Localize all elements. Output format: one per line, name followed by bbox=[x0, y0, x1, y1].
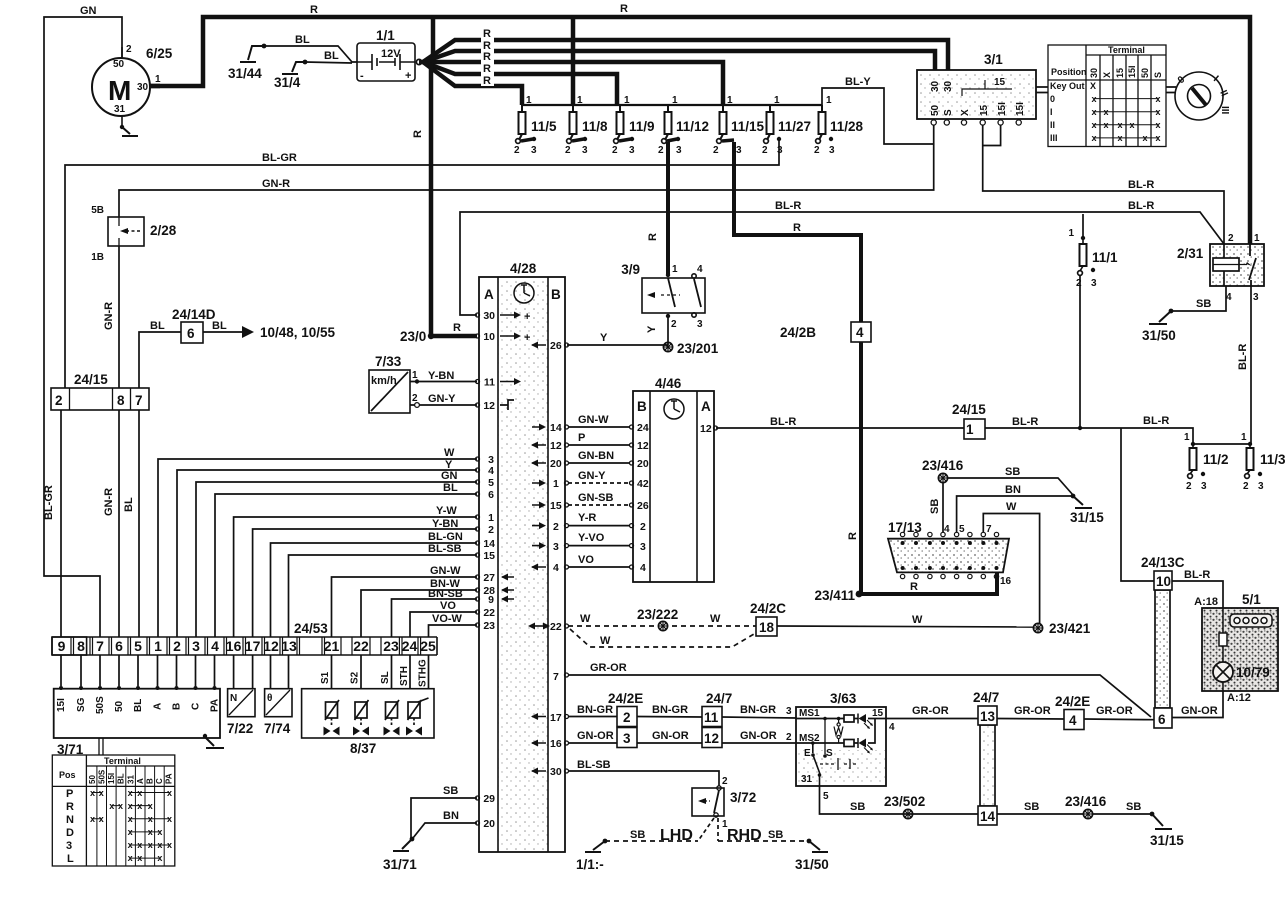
svg-text:26: 26 bbox=[550, 340, 562, 352]
svg-text:21: 21 bbox=[324, 638, 340, 654]
svg-text:15: 15 bbox=[1115, 68, 1125, 78]
svg-text:31/50: 31/50 bbox=[1142, 328, 1176, 343]
svg-text:BL-GR: BL-GR bbox=[262, 152, 297, 164]
svg-text:23: 23 bbox=[383, 638, 399, 654]
svg-text:11/12: 11/12 bbox=[676, 119, 709, 134]
wire W solid from 24/2C to node 23/421 bbox=[777, 614, 1091, 636]
svg-text:15: 15 bbox=[994, 77, 1006, 88]
svg-text:7/33: 7/33 bbox=[375, 354, 402, 369]
svg-text:BN-GR: BN-GR bbox=[652, 704, 688, 716]
svg-text:1: 1 bbox=[1184, 432, 1190, 443]
svg-text:S: S bbox=[826, 748, 833, 759]
svg-text:5/1: 5/1 bbox=[1242, 592, 1261, 607]
svg-text:13: 13 bbox=[281, 638, 297, 654]
connector 24/15 single box 1 bbox=[952, 402, 986, 439]
component 2/28 bbox=[91, 205, 177, 263]
svg-text:10: 10 bbox=[483, 331, 495, 343]
svg-text:3: 3 bbox=[629, 145, 635, 156]
svg-text:1: 1 bbox=[577, 95, 583, 106]
svg-text:27: 27 bbox=[483, 572, 495, 584]
connector 17/13 diagnostic bbox=[888, 520, 1012, 587]
svg-text:2/28: 2/28 bbox=[150, 223, 177, 238]
svg-text:SB: SB bbox=[443, 785, 458, 797]
svg-text:16: 16 bbox=[1000, 576, 1012, 587]
svg-text:SG: SG bbox=[76, 697, 87, 712]
svg-text:11/28: 11/28 bbox=[830, 119, 864, 134]
svg-text:BL-R: BL-R bbox=[1143, 415, 1169, 427]
svg-text:2: 2 bbox=[565, 145, 571, 156]
RHD dashed SB to ground 31/50 bbox=[718, 840, 809, 842]
interlock switch E to 31/5 bbox=[811, 743, 821, 786]
ground below motor 31 bbox=[120, 125, 124, 129]
connector strip 24/53 bbox=[52, 621, 437, 655]
svg-text:SB: SB bbox=[1196, 298, 1211, 310]
svg-text:24/53: 24/53 bbox=[294, 621, 328, 636]
svg-text:10/79: 10/79 bbox=[1236, 665, 1270, 680]
svg-text:15I: 15I bbox=[1015, 102, 1026, 116]
svg-text:A:12: A:12 bbox=[1227, 692, 1251, 704]
svg-text:x: x bbox=[167, 814, 172, 824]
svg-text:3: 3 bbox=[829, 145, 835, 156]
svg-text:STH: STH bbox=[399, 666, 410, 686]
wire Y-VO bbox=[568, 545, 630, 547]
svg-text:C: C bbox=[191, 703, 202, 710]
connector 4/28 main box bbox=[479, 261, 565, 852]
wire SB from box 14 through 23/416 to ground 31/15 bbox=[997, 794, 1184, 848]
svg-text:5: 5 bbox=[134, 638, 142, 654]
svg-text:GR-OR: GR-OR bbox=[590, 662, 627, 674]
svg-text:S1: S1 bbox=[320, 671, 331, 684]
svg-text:R: R bbox=[483, 28, 491, 40]
svg-text:2: 2 bbox=[1076, 278, 1082, 289]
svg-text:GN-OR: GN-OR bbox=[577, 730, 614, 742]
svg-text:x: x bbox=[148, 814, 153, 824]
svg-text:50: 50 bbox=[1140, 68, 1150, 78]
svg-text:BL-R: BL-R bbox=[1012, 416, 1038, 428]
4/28 B-side pins bbox=[528, 340, 569, 778]
battery plus terminal circle bbox=[416, 59, 421, 64]
cascade wires from 4/28 A pins to 24/53 strip bbox=[158, 447, 477, 637]
svg-text:R: R bbox=[453, 322, 461, 334]
svg-text:24/2E: 24/2E bbox=[608, 691, 643, 706]
fuse 11/5 bbox=[514, 95, 557, 156]
wire GN-Y dashed bbox=[568, 482, 630, 484]
svg-text:A: A bbox=[484, 287, 494, 302]
svg-text:3/9: 3/9 bbox=[621, 262, 640, 277]
svg-text:4: 4 bbox=[640, 562, 646, 574]
svg-text:x: x bbox=[157, 827, 162, 837]
wire BL-R net from 4/46 A12 through 24/15-1 to 11/1, 11/2, 11/3 and 24/13C bbox=[716, 415, 1252, 581]
svg-text:1/1: 1/1 bbox=[376, 28, 395, 43]
svg-text:GN-SB: GN-SB bbox=[578, 492, 614, 504]
svg-text:3/63: 3/63 bbox=[830, 691, 857, 706]
svg-text:x: x bbox=[167, 788, 172, 798]
svg-text:W: W bbox=[1006, 501, 1017, 513]
svg-text:x: x bbox=[90, 788, 95, 798]
connector 24/2E boxes 2 and 3 bbox=[608, 691, 643, 748]
svg-text:R: R bbox=[412, 130, 424, 138]
svg-text:15I: 15I bbox=[1127, 65, 1137, 78]
svg-text:16: 16 bbox=[226, 638, 242, 654]
svg-text:GN-R: GN-R bbox=[262, 178, 290, 190]
svg-text:S: S bbox=[1153, 72, 1163, 78]
dashed LHD/RHD select wires from 3/72 pin 1 bbox=[576, 818, 829, 872]
svg-text:17: 17 bbox=[550, 712, 562, 724]
svg-text:1/1:-: 1/1:- bbox=[576, 857, 604, 872]
svg-text:2/31: 2/31 bbox=[1177, 246, 1204, 261]
svg-text:E: E bbox=[804, 748, 811, 759]
svg-text:4: 4 bbox=[889, 722, 895, 733]
svg-text:24/14D: 24/14D bbox=[172, 307, 216, 322]
svg-text:+: + bbox=[524, 332, 530, 344]
wires 4/28 B to 4/46 B bbox=[568, 414, 630, 567]
wire BL-SB bbox=[289, 555, 478, 637]
svg-text:PA: PA bbox=[165, 773, 174, 784]
wire GN-OR row: 4/28 B16 to 3/63 pin 2 bbox=[568, 730, 796, 743]
svg-text:A:18: A:18 bbox=[1194, 596, 1218, 608]
svg-text:14: 14 bbox=[550, 422, 562, 434]
MS2 line with resistor and LED bbox=[796, 719, 875, 754]
svg-text:BL-SB: BL-SB bbox=[577, 759, 611, 771]
connector 24/13C column boxes 10 and 6 bbox=[1141, 555, 1185, 728]
wire BL-GN bbox=[271, 543, 478, 637]
svg-text:7: 7 bbox=[96, 638, 104, 654]
wire Y-BN bbox=[253, 529, 477, 637]
svg-text:23/421: 23/421 bbox=[1049, 621, 1091, 636]
solenoid SL bbox=[384, 700, 400, 736]
svg-text:26: 26 bbox=[637, 500, 649, 512]
svg-text:3: 3 bbox=[192, 638, 200, 654]
svg-text:RHD: RHD bbox=[727, 827, 762, 844]
svg-text:22: 22 bbox=[483, 607, 495, 619]
svg-text:BL: BL bbox=[117, 773, 126, 784]
wire Y from 3/9 pin2 to node 23/201 and to 4/28 B26 bbox=[567, 318, 668, 345]
svg-text:23/416: 23/416 bbox=[922, 458, 964, 473]
svg-text:5: 5 bbox=[959, 524, 965, 535]
wire BN-W bbox=[361, 590, 477, 637]
svg-text:1: 1 bbox=[412, 370, 418, 381]
svg-text:1: 1 bbox=[526, 95, 532, 106]
ground 31/4 bbox=[282, 62, 305, 74]
svg-text:Position: Position bbox=[1051, 67, 1087, 77]
svg-text:N: N bbox=[230, 693, 237, 704]
svg-text:22: 22 bbox=[353, 638, 369, 654]
svg-text:R: R bbox=[66, 801, 74, 813]
svg-text:6: 6 bbox=[1158, 712, 1166, 727]
svg-text:BL: BL bbox=[443, 482, 458, 494]
svg-text:R: R bbox=[793, 222, 801, 234]
svg-text:30: 30 bbox=[483, 310, 495, 322]
svg-text:BN: BN bbox=[443, 810, 459, 822]
svg-text:BL-R: BL-R bbox=[770, 416, 796, 428]
svg-text:3: 3 bbox=[623, 731, 631, 746]
svg-text:3: 3 bbox=[1091, 278, 1097, 289]
solenoid STH/STHG bbox=[406, 698, 429, 736]
fuse 11/27 bbox=[762, 95, 811, 156]
MS1 line with resistor and LED bbox=[796, 714, 886, 730]
svg-text:PA: PA bbox=[210, 699, 221, 712]
fuse 11/28 bbox=[814, 95, 864, 156]
svg-text:SB: SB bbox=[929, 499, 941, 514]
svg-text:7: 7 bbox=[986, 524, 992, 535]
component 3/71 gear selector bbox=[54, 655, 224, 757]
connector symbol inside 5/1 bbox=[1230, 614, 1272, 627]
solenoid block 8/37 bbox=[302, 655, 434, 756]
svg-text:VO-W: VO-W bbox=[432, 613, 463, 625]
svg-text:X: X bbox=[960, 109, 971, 116]
4/28 A-side pins bbox=[476, 310, 531, 830]
svg-text:BL-R: BL-R bbox=[1128, 200, 1154, 212]
svg-text:A: A bbox=[701, 399, 711, 414]
svg-text:24/2B: 24/2B bbox=[780, 325, 816, 340]
svg-text:-: - bbox=[360, 70, 364, 82]
connector 24/2C box 18 bbox=[750, 601, 786, 636]
svg-text:x: x bbox=[128, 788, 133, 798]
connector 24/7 column boxes 13 and 14 bbox=[973, 690, 999, 825]
sensor 7/33 km/h bbox=[369, 354, 477, 413]
svg-text:W: W bbox=[710, 613, 721, 625]
wire BL-GR from 11/27 pin3 left across to left side and down bbox=[65, 140, 779, 388]
key cylinder symbol bbox=[1175, 72, 1230, 120]
svg-text:D: D bbox=[66, 827, 74, 839]
wire BL-R from box 10 to 5/1 A:18 bbox=[1172, 569, 1223, 608]
svg-text:31/71: 31/71 bbox=[383, 857, 417, 872]
table row connect lines and X marks bbox=[1094, 99, 1158, 138]
svg-text:1B: 1B bbox=[91, 252, 104, 263]
connector 24/14D box 6 with BL wires bbox=[139, 307, 336, 388]
wire GN-SB dashed bbox=[568, 504, 630, 506]
svg-text:23/0: 23/0 bbox=[400, 329, 426, 344]
svg-text:STHG: STHG bbox=[418, 659, 429, 687]
svg-text:x: x bbox=[148, 801, 153, 811]
svg-text:x: x bbox=[128, 840, 133, 850]
svg-text:BL: BL bbox=[150, 320, 165, 332]
svg-text:3: 3 bbox=[697, 319, 703, 330]
svg-text:4: 4 bbox=[856, 325, 864, 340]
svg-text:23: 23 bbox=[483, 620, 495, 632]
svg-text:GR-OR: GR-OR bbox=[912, 705, 949, 717]
svg-text:Y-BN: Y-BN bbox=[432, 518, 458, 530]
svg-text:5B: 5B bbox=[91, 205, 104, 216]
svg-text:3: 3 bbox=[777, 145, 783, 156]
connector 4/46 bbox=[630, 376, 718, 582]
svg-text:4: 4 bbox=[488, 465, 494, 477]
svg-text:BL-GR: BL-GR bbox=[43, 485, 55, 520]
svg-text:1: 1 bbox=[488, 512, 494, 524]
wire P bbox=[568, 444, 630, 446]
svg-text:2: 2 bbox=[713, 145, 719, 156]
svg-text:31: 31 bbox=[126, 775, 135, 784]
sensor 7/22 bbox=[227, 655, 255, 736]
svg-text:BL-Y: BL-Y bbox=[845, 76, 871, 88]
svg-text:L: L bbox=[67, 853, 74, 865]
svg-text:LHD: LHD bbox=[660, 827, 693, 844]
svg-text:BN-GR: BN-GR bbox=[740, 704, 776, 716]
svg-text:4: 4 bbox=[211, 638, 219, 654]
svg-text:20: 20 bbox=[637, 458, 649, 470]
wire Y-W bbox=[234, 517, 477, 637]
motor 6/25 bbox=[92, 47, 160, 127]
wire BL-R from 3/1 pin15 to relay 2/31 pin 2 bbox=[983, 125, 1224, 244]
svg-text:3: 3 bbox=[1258, 481, 1264, 492]
svg-text:30: 30 bbox=[943, 80, 954, 92]
svg-text:BL-R: BL-R bbox=[775, 200, 801, 212]
svg-text:15: 15 bbox=[872, 708, 884, 719]
fuse 11/12 bbox=[658, 95, 709, 156]
R labels on fan bbox=[481, 27, 494, 87]
wire GN from motor pin 2 around top-left down to 24/53 cell 7 bbox=[44, 17, 122, 637]
svg-text:SB: SB bbox=[1126, 801, 1141, 813]
fuse 11/9 bbox=[612, 95, 655, 156]
svg-text:42: 42 bbox=[637, 478, 649, 490]
svg-text:P: P bbox=[578, 432, 585, 444]
svg-text:x: x bbox=[1155, 107, 1160, 117]
svg-text:1: 1 bbox=[154, 638, 162, 654]
svg-text:12: 12 bbox=[550, 440, 562, 452]
svg-text:III: III bbox=[1050, 133, 1058, 143]
svg-text:8/37: 8/37 bbox=[350, 741, 376, 756]
connector 24/2E box 4 bbox=[1055, 694, 1090, 730]
svg-text:2: 2 bbox=[488, 524, 494, 536]
svg-text:11/5: 11/5 bbox=[531, 119, 557, 134]
svg-text:31/4: 31/4 bbox=[274, 75, 301, 90]
svg-text:9: 9 bbox=[58, 638, 66, 654]
wire BL-R horizontal to 4/28 pin30 (from relay pin2 diagonal) bbox=[460, 200, 1224, 315]
wire R drop from top bus to battery plus fan point bbox=[431, 17, 436, 58]
svg-text:23/201: 23/201 bbox=[677, 341, 719, 356]
svg-text:x: x bbox=[128, 853, 133, 863]
node 23/0 and thick R wire into 4/28 pin 10 bbox=[400, 322, 477, 344]
svg-text:Terminal: Terminal bbox=[1108, 45, 1145, 55]
wire SB from 3/63 pin5 through 23/502 to 24/7 pin14 bbox=[820, 786, 979, 819]
svg-text:12: 12 bbox=[263, 638, 279, 654]
motor winding symbol between lines bbox=[834, 719, 843, 744]
wire R thick drop to 23/0 bbox=[429, 64, 434, 336]
svg-text:1: 1 bbox=[1241, 432, 1247, 443]
pin circles bottom of 3/1 bbox=[931, 120, 1021, 125]
svg-text:x: x bbox=[1155, 120, 1160, 130]
svg-text:12: 12 bbox=[637, 440, 649, 452]
svg-text:GN-OR: GN-OR bbox=[740, 730, 777, 742]
svg-text:5: 5 bbox=[488, 477, 494, 489]
ignition switch 3/1 bbox=[917, 52, 1036, 125]
svg-text:x: x bbox=[1129, 120, 1134, 130]
terminal table of 3/1 bbox=[1048, 45, 1166, 147]
svg-text:θ: θ bbox=[267, 693, 272, 704]
svg-text:3: 3 bbox=[640, 541, 646, 553]
svg-text:GN-W: GN-W bbox=[578, 414, 609, 426]
svg-text:12: 12 bbox=[704, 731, 719, 746]
svg-text:2: 2 bbox=[762, 145, 768, 156]
svg-text:11/15: 11/15 bbox=[731, 119, 765, 134]
svg-text:x: x bbox=[167, 840, 172, 850]
arrows B side bbox=[532, 345, 546, 771]
svg-text:24/2E: 24/2E bbox=[1055, 694, 1090, 709]
svg-text:Terminal: Terminal bbox=[104, 756, 141, 766]
svg-text:24/13C: 24/13C bbox=[1141, 555, 1185, 570]
svg-text:3: 3 bbox=[66, 840, 72, 852]
svg-text:8: 8 bbox=[117, 393, 125, 408]
svg-text:15I: 15I bbox=[107, 773, 116, 784]
svg-text:7: 7 bbox=[135, 393, 143, 408]
svg-text:III: III bbox=[1219, 106, 1230, 115]
svg-text:8: 8 bbox=[77, 638, 85, 654]
svg-text:31/15: 31/15 bbox=[1070, 510, 1104, 525]
svg-text:23/502: 23/502 bbox=[884, 794, 925, 809]
svg-text:GR-OR: GR-OR bbox=[1096, 705, 1133, 717]
svg-text:6: 6 bbox=[115, 638, 123, 654]
svg-text:3: 3 bbox=[786, 706, 792, 717]
wire R thick bus: motor 30 to top edge, across, down right side to relay 2/31 pin 1 bbox=[150, 17, 1250, 244]
wire GN-W bbox=[568, 426, 630, 428]
wire W bbox=[158, 459, 477, 637]
svg-text:15I: 15I bbox=[56, 698, 67, 712]
svg-text:BL-GN: BL-GN bbox=[428, 531, 463, 543]
svg-text:12: 12 bbox=[700, 423, 712, 435]
svg-text:50: 50 bbox=[88, 775, 97, 784]
svg-text:1: 1 bbox=[672, 95, 678, 106]
svg-text:3: 3 bbox=[676, 145, 682, 156]
svg-text:GN-OR: GN-OR bbox=[652, 730, 689, 742]
svg-text:x: x bbox=[1091, 94, 1096, 104]
svg-text:2: 2 bbox=[671, 319, 677, 330]
svg-text:B: B bbox=[637, 399, 647, 414]
svg-text:x: x bbox=[1091, 107, 1096, 117]
wire BL bbox=[215, 494, 477, 637]
svg-text:3: 3 bbox=[1253, 292, 1259, 303]
svg-text:W: W bbox=[912, 614, 923, 626]
svg-text:x: x bbox=[157, 840, 162, 850]
svg-text:29: 29 bbox=[483, 793, 495, 805]
wire VO bbox=[410, 612, 477, 637]
svg-text:I: I bbox=[1050, 107, 1053, 117]
svg-text:2: 2 bbox=[553, 521, 559, 533]
svg-text:31: 31 bbox=[114, 104, 126, 115]
svg-text:R: R bbox=[910, 581, 918, 593]
svg-text:X: X bbox=[1102, 72, 1112, 78]
wire BN from pin 5 bbox=[957, 496, 1073, 532]
connector 24/15 left strip bbox=[51, 372, 149, 410]
svg-text:R: R bbox=[310, 4, 318, 16]
svg-text:2: 2 bbox=[1228, 233, 1234, 244]
svg-text:2: 2 bbox=[1243, 481, 1249, 492]
svg-text:3: 3 bbox=[736, 145, 742, 156]
svg-text:5: 5 bbox=[823, 791, 829, 802]
svg-text:10/48, 10/55: 10/48, 10/55 bbox=[260, 325, 336, 340]
wire BN-SB bbox=[392, 599, 478, 637]
svg-text:x: x bbox=[148, 827, 153, 837]
svg-text:2: 2 bbox=[640, 521, 646, 533]
svg-text:Y-VO: Y-VO bbox=[578, 532, 605, 544]
svg-text:S: S bbox=[943, 109, 954, 116]
solenoid S2 bbox=[353, 700, 369, 736]
svg-text:x: x bbox=[99, 788, 104, 798]
svg-text:7/22: 7/22 bbox=[227, 721, 253, 736]
switch 3/9 bbox=[621, 262, 705, 330]
svg-text:30: 30 bbox=[1089, 68, 1099, 78]
svg-text:25: 25 bbox=[420, 638, 436, 654]
svg-text:4/28: 4/28 bbox=[510, 261, 537, 276]
svg-text:BL-R: BL-R bbox=[1237, 344, 1249, 370]
svg-text:12: 12 bbox=[483, 400, 495, 412]
svg-text:BL: BL bbox=[324, 50, 339, 62]
svg-text:+: + bbox=[405, 70, 411, 82]
component 3/63 shift interlock bbox=[796, 691, 895, 802]
svg-text:2: 2 bbox=[514, 145, 520, 156]
wire Y-R bbox=[568, 525, 630, 527]
svg-text:X: X bbox=[1090, 81, 1096, 91]
svg-text:x: x bbox=[157, 853, 162, 863]
